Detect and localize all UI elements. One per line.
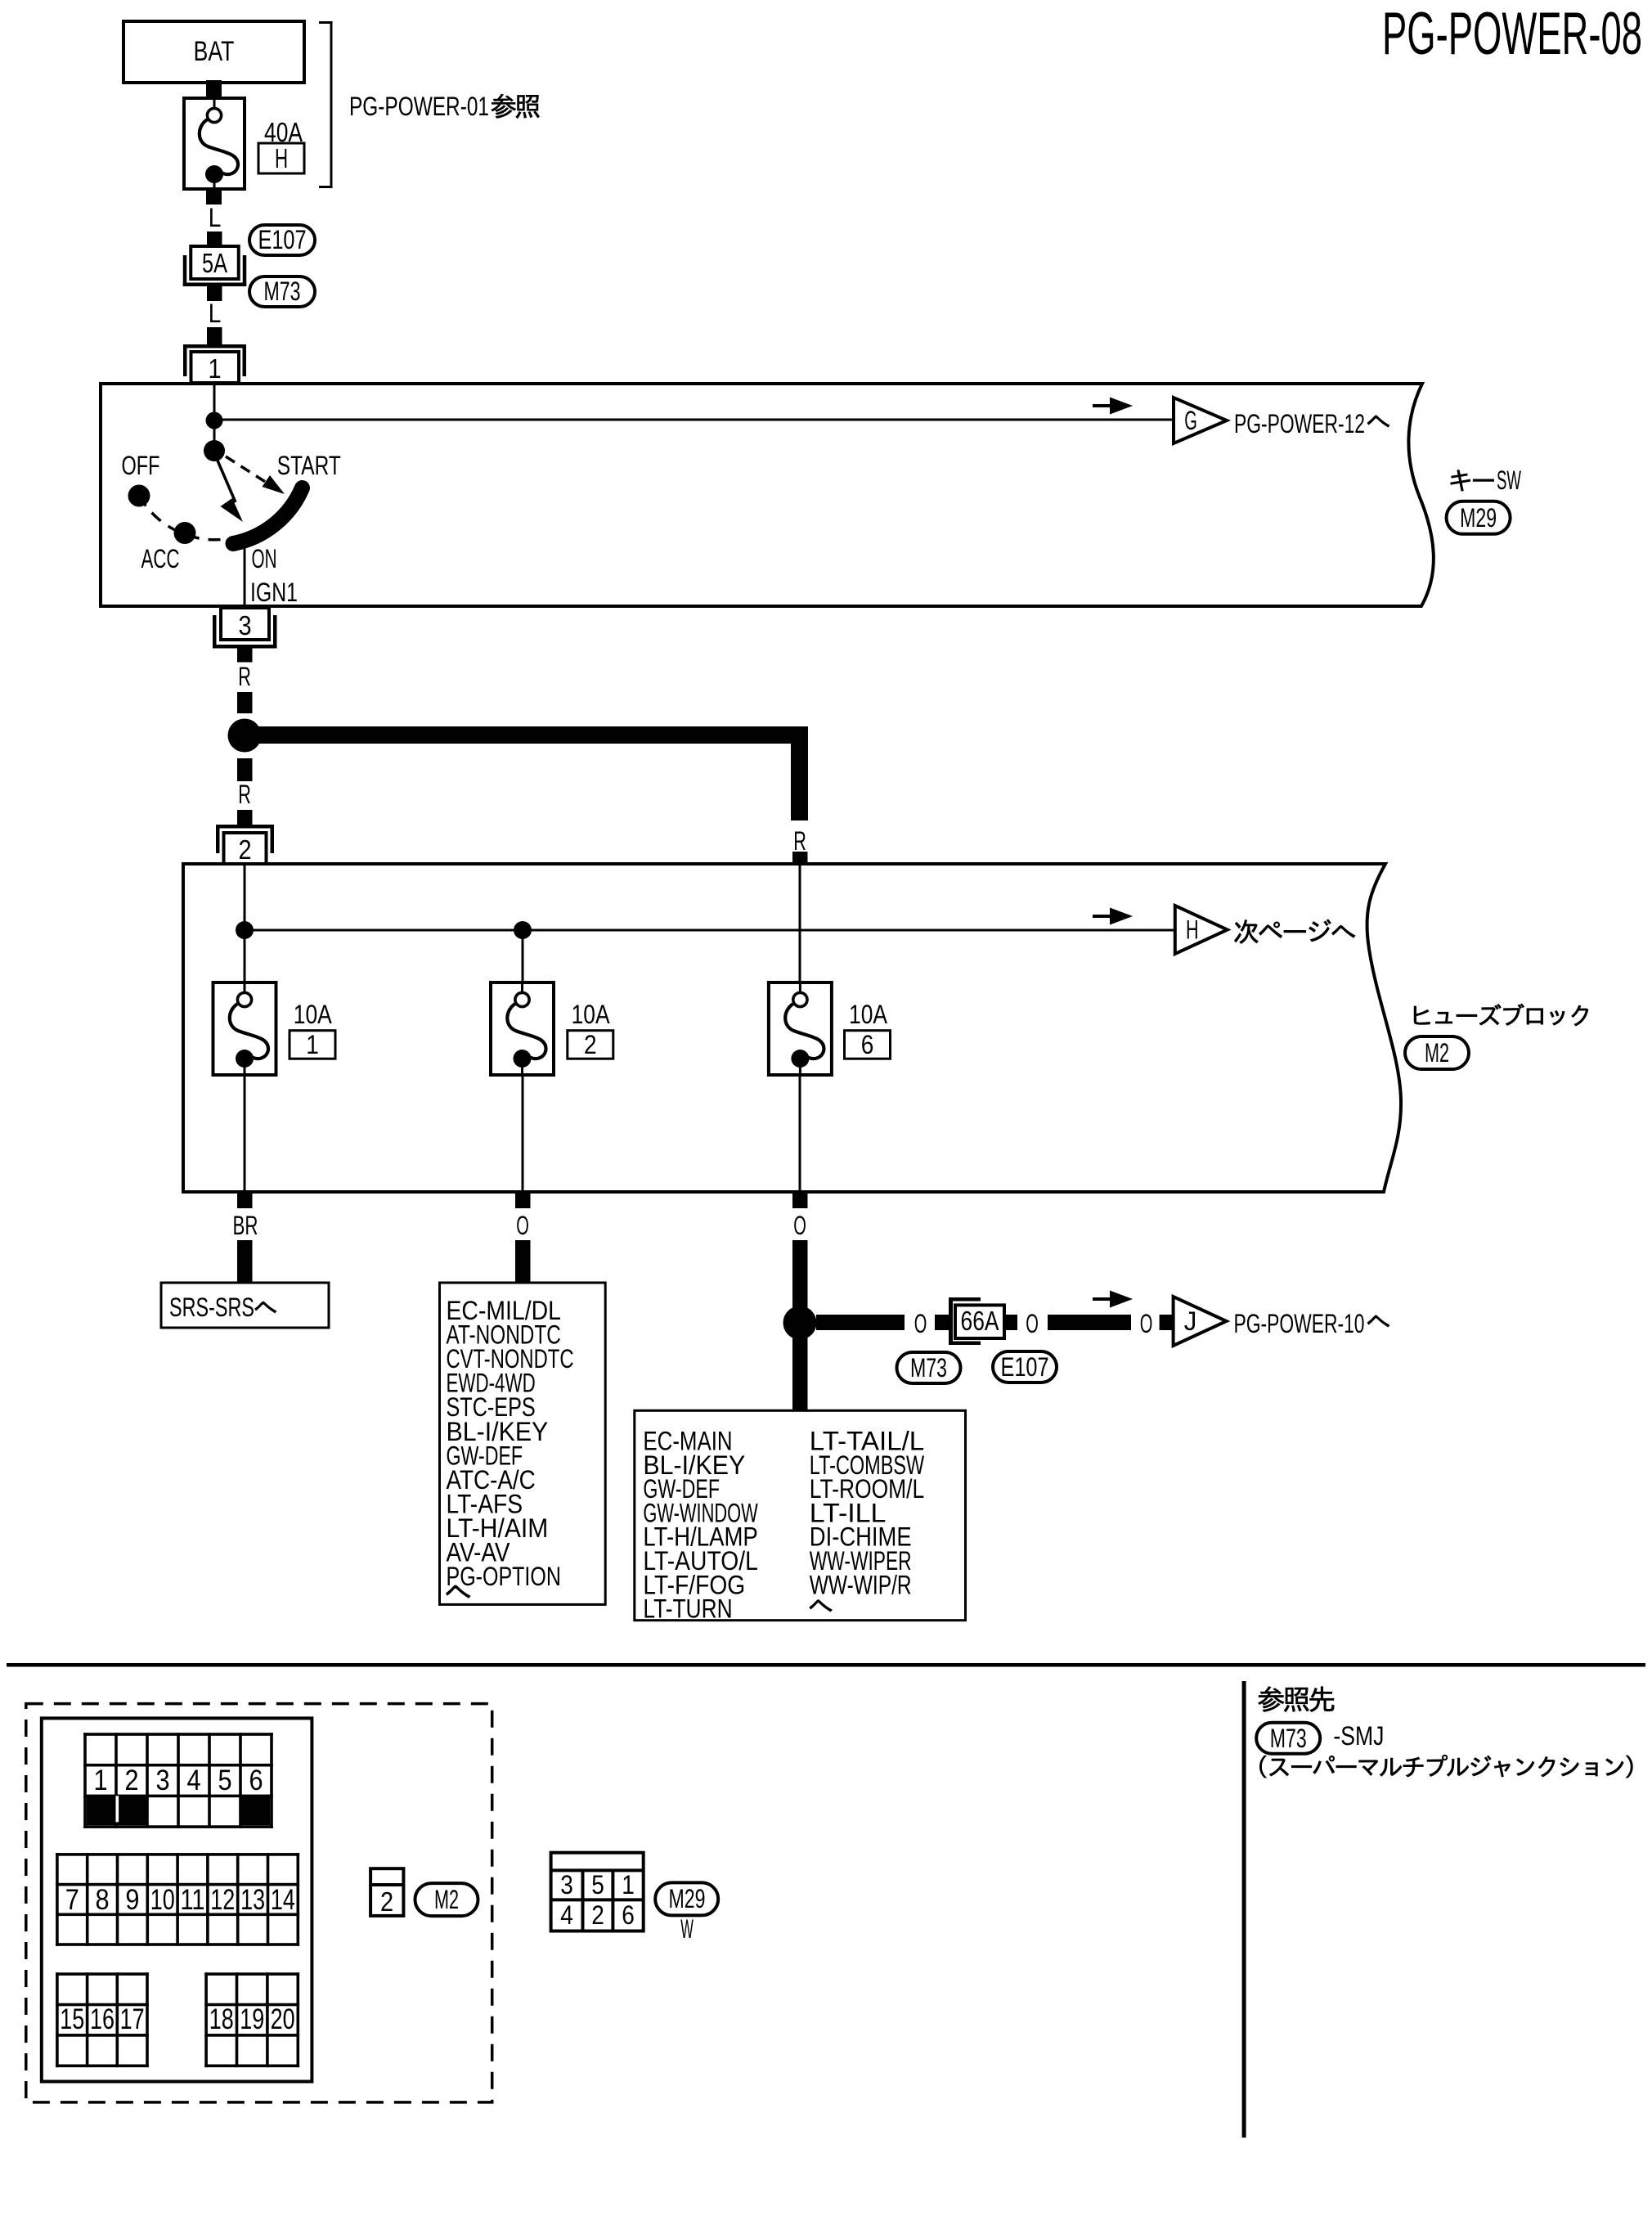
svg-text:10A: 10A (294, 1000, 333, 1029)
svg-text:5: 5 (591, 1870, 604, 1900)
thick wire junction to SMJ (816, 1315, 905, 1330)
svg-text:10A: 10A (849, 1000, 888, 1029)
svg-text:BR: BR (233, 1211, 258, 1240)
reference section divider (1242, 1681, 1246, 2138)
fuse 1 10A (213, 982, 276, 1075)
connector ref M29 (bottom) (655, 1882, 718, 1915)
continuation へ (446, 1585, 470, 1598)
key switch キーSW M29 box (101, 384, 1434, 606)
direction arrow on G wire (1093, 404, 1116, 407)
svg-text:16: 16 (90, 2003, 114, 2035)
connector pin 2 (fuse block) (216, 825, 274, 829)
svg-text:11: 11 (181, 1884, 205, 1916)
svg-text:19: 19 (240, 2003, 264, 2035)
label box 1 (290, 1031, 335, 1059)
svg-text:R: R (793, 826, 806, 856)
svg-text:66A: 66A (961, 1306, 999, 1336)
label super multiple junction (1259, 1755, 1632, 1778)
wire ON to pin 3 (244, 538, 246, 608)
SMJ connector 5A (183, 255, 187, 286)
svg-text:6: 6 (861, 1030, 874, 1059)
svg-text:10: 10 (150, 1884, 175, 1916)
svg-text:PG-POWER-08: PG-POWER-08 (1382, 1, 1642, 67)
label box 6 (845, 1031, 891, 1059)
svg-text:ON: ON (252, 544, 277, 573)
svg-text:O: O (793, 1211, 806, 1240)
svg-text:H: H (1186, 915, 1199, 945)
connector ref M2 (1405, 1036, 1469, 1069)
junction node O wire (783, 1306, 817, 1340)
svg-text:20: 20 (271, 2003, 295, 2035)
svg-text:2: 2 (238, 834, 251, 865)
svg-text:17: 17 (120, 2003, 145, 2035)
svg-text:ACC: ACC (141, 544, 180, 573)
divider line (7, 1663, 1645, 1667)
contact ACC (174, 522, 196, 544)
wire segment below junction (237, 758, 253, 781)
svg-text:4: 4 (560, 1900, 573, 1930)
svg-text:E107: E107 (258, 225, 307, 254)
svg-text:2: 2 (124, 1765, 138, 1796)
svg-text:5A: 5A (202, 248, 227, 278)
occupied slots (black) (87, 1796, 148, 1825)
svg-text:1: 1 (306, 1030, 319, 1059)
wire stub BR (237, 1194, 253, 1208)
svg-text:M29: M29 (669, 1884, 706, 1913)
wire segment (237, 692, 253, 713)
svg-text:J: J (1184, 1306, 1197, 1336)
page ref triangle G (1174, 398, 1227, 443)
svg-text:12: 12 (210, 1884, 235, 1916)
svg-text:L: L (209, 299, 222, 328)
svg-text:WW-WIP/R: WW-WIP/R (810, 1570, 912, 1599)
connector pin 3 IGN1 (221, 608, 269, 640)
svg-text:8: 8 (96, 1884, 110, 1916)
svg-text:PG-POWER-12: PG-POWER-12 (1234, 409, 1365, 438)
direction arrow on J wire (1093, 1297, 1116, 1301)
connector ref E107 (993, 1351, 1057, 1383)
svg-text:6: 6 (622, 1900, 635, 1930)
connector cell 2 (370, 1868, 403, 1916)
label キーSW (1451, 470, 1494, 491)
wire stub below pin 3 (237, 649, 253, 663)
svg-text:OFF: OFF (122, 451, 160, 480)
wire segment (207, 232, 222, 246)
svg-text:O: O (516, 1211, 529, 1240)
rotation path dashed arc OFF-ACC-ON (139, 496, 235, 540)
wire stub O (fuse6) (792, 1194, 808, 1208)
list box circuits fuse2 (440, 1283, 606, 1604)
svg-text:15: 15 (60, 2003, 84, 2035)
connector pin 1 (key switch) (183, 344, 246, 348)
svg-text:M73: M73 (264, 277, 301, 306)
thick wire to J (1048, 1315, 1131, 1330)
wire bus to fuse 2 (522, 930, 524, 984)
connector ref M73 (897, 1352, 961, 1383)
thick wire O to list (515, 1240, 531, 1283)
rotor pivot (204, 440, 225, 461)
wire segment (207, 327, 222, 344)
bus wire to next page H (245, 929, 1175, 932)
thick wire elbow to fuse 6 feed (254, 735, 800, 821)
wire segment (1004, 1315, 1017, 1330)
wire BAT to fusible link (206, 80, 222, 98)
wire junction to rotor (213, 420, 216, 446)
contact ON (crescent) (233, 488, 303, 544)
continuation へ (810, 1600, 833, 1612)
wire fuse1 to BR out (244, 1075, 246, 1192)
label 参照先 (1259, 1687, 1335, 1712)
svg-text:G: G (1184, 406, 1197, 435)
svg-text:PG-POWER-01: PG-POWER-01 (349, 92, 489, 121)
svg-text:2: 2 (584, 1030, 597, 1059)
svg-text:1: 1 (93, 1765, 107, 1796)
svg-text:LT-TURN: LT-TURN (643, 1594, 732, 1624)
connector ref M73 (249, 277, 315, 307)
svg-text:2: 2 (591, 1900, 604, 1930)
wire stub O (fuse2) (515, 1194, 531, 1208)
direction arrow on H wire (1093, 915, 1116, 918)
wire segment (237, 810, 253, 825)
node bus/fuse2 (514, 921, 532, 939)
svg-text:R: R (238, 780, 251, 809)
svg-text:3: 3 (560, 1870, 573, 1900)
svg-text:PG-POWER-10: PG-POWER-10 (1234, 1309, 1365, 1338)
svg-text:4: 4 (186, 1765, 200, 1796)
wire pin1 to junction (213, 384, 216, 420)
wire R feed to fuse 6 (799, 864, 801, 984)
svg-text:18: 18 (209, 2003, 234, 2035)
fuse layout grid 15-17 (56, 1972, 59, 2067)
rotor arm solid arrow to ON (218, 461, 236, 502)
fuse layout grid 7-14 (56, 1853, 59, 1946)
connector ref E107 (249, 225, 315, 255)
svg-text:H: H (275, 143, 288, 173)
node (branch to G) (206, 412, 223, 429)
box SRS-SRSへ (161, 1283, 329, 1328)
svg-text:O: O (1140, 1309, 1153, 1338)
svg-text:3: 3 (238, 610, 251, 641)
svg-text:PG-OPTION: PG-OPTION (447, 1562, 561, 1591)
label box 2 (568, 1031, 613, 1059)
fuse block outline box (42, 1718, 312, 2081)
svg-text:E107: E107 (1001, 1352, 1049, 1382)
wire bus to fuse 1 (244, 930, 246, 984)
svg-text:IGN1: IGN1 (250, 578, 298, 607)
svg-text:10A: 10A (572, 1000, 611, 1029)
fuse block ヒューズブロック M2 box (183, 864, 1401, 1192)
label 次ページへ (1234, 919, 1355, 944)
wire pin2 down to bus (244, 865, 246, 930)
connector grid M29 (551, 1853, 644, 1931)
svg-text:L: L (209, 203, 222, 232)
svg-text:2: 2 (380, 1886, 393, 1917)
svg-text:1: 1 (208, 353, 221, 384)
junction node R wire (228, 719, 262, 753)
fuse 6 10A (769, 982, 832, 1075)
svg-text:9: 9 (125, 1884, 139, 1916)
wire segment (207, 286, 222, 301)
svg-text:13: 13 (240, 1884, 265, 1916)
svg-text:5: 5 (218, 1765, 231, 1796)
fuse 2 10A (491, 982, 554, 1075)
battery BAT (123, 21, 304, 83)
fusible link H 40A (184, 98, 245, 189)
svg-text:START: START (277, 451, 341, 480)
svg-text:BAT: BAT (194, 36, 235, 67)
fuse layout grid 18-20 (204, 1972, 208, 2067)
wire to PG-POWER-12 (214, 419, 1174, 421)
svg-text:M2: M2 (1425, 1038, 1449, 1068)
svg-text:1: 1 (622, 1870, 635, 1900)
node bus/fuse1 (236, 921, 254, 939)
bracket PG-POWER-01 reference (330, 21, 333, 188)
svg-text:SW: SW (1497, 465, 1521, 495)
contact OFF (128, 485, 150, 507)
svg-text:O: O (1026, 1309, 1039, 1338)
connector ref M2 (bottom) (415, 1883, 478, 1916)
SMJ connector 66A (949, 1297, 953, 1345)
dashed box fuse layout (26, 1704, 492, 2102)
label box H (258, 143, 304, 173)
svg-text:14: 14 (271, 1884, 295, 1916)
svg-text:R: R (238, 662, 251, 691)
connector ref M73 (bottom) (1256, 1723, 1320, 1754)
rotor dashed arrow to START (226, 456, 267, 483)
list box circuits fuse6 (635, 1410, 966, 1620)
svg-text:M73: M73 (910, 1353, 947, 1383)
wire fuse2 to O out (522, 1075, 524, 1192)
wire segment (935, 1315, 949, 1330)
svg-text:6: 6 (249, 1765, 263, 1796)
wire stub into fuse block (792, 852, 808, 862)
thick wire O down to list (792, 1240, 808, 1412)
page ref triangle J (1174, 1297, 1227, 1346)
fuse layout grid 1-6 (83, 1733, 87, 1828)
svg-text:-SMJ: -SMJ (1333, 1721, 1384, 1751)
wire segment (1160, 1315, 1175, 1330)
connector ref M29 (1447, 501, 1511, 534)
wire segment below fusible link (206, 189, 222, 205)
svg-text:M2: M2 (434, 1885, 459, 1914)
svg-text:W: W (680, 1914, 694, 1944)
svg-text:3: 3 (155, 1765, 169, 1796)
svg-text:SRS-SRS: SRS-SRS (169, 1293, 254, 1322)
label ヒューズブロック (1414, 1004, 1588, 1026)
svg-text:O: O (914, 1309, 927, 1338)
wire fuse6 to O out (799, 1075, 801, 1192)
svg-text:7: 7 (65, 1884, 79, 1916)
thick wire BR to SRS (237, 1240, 253, 1283)
page ref triangle H (1175, 906, 1228, 954)
svg-text:M29: M29 (1460, 503, 1497, 533)
svg-text:M73: M73 (1270, 1724, 1307, 1753)
